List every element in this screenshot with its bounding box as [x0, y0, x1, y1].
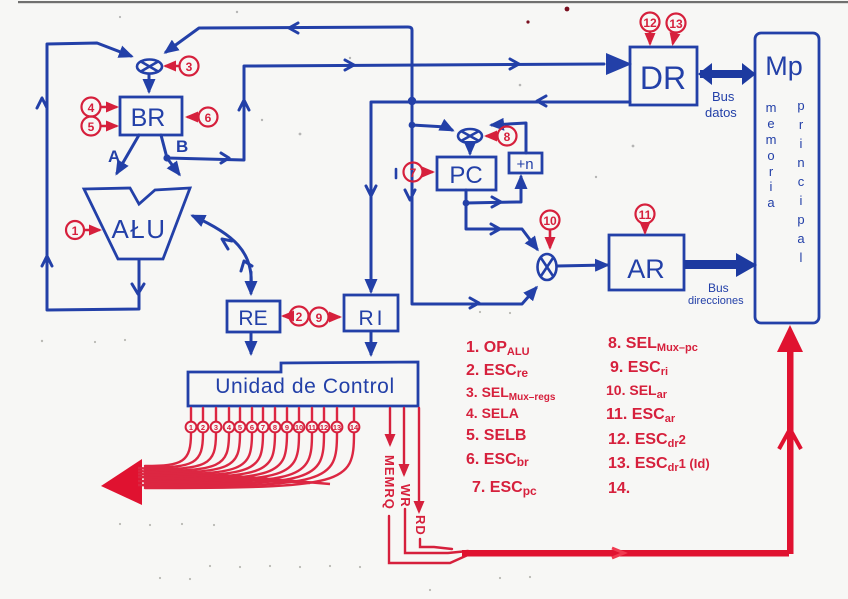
svg-text:11. ESCar: 11. ESCar [606, 406, 676, 425]
svg-text:7: 7 [410, 166, 417, 180]
svg-text:12: 12 [320, 423, 328, 432]
svg-text:r: r [799, 117, 804, 132]
svg-text:9. ESCri: 9. ESCri [610, 359, 668, 378]
svg-text:B: B [176, 137, 188, 156]
svg-text:3: 3 [214, 423, 218, 432]
svg-text:RD: RD [413, 515, 428, 536]
svg-text:5. SELB: 5. SELB [466, 427, 526, 444]
svg-text:Bus: Bus [712, 89, 735, 104]
svg-text:i: i [770, 179, 773, 194]
svg-text:11: 11 [639, 208, 652, 222]
svg-text:7. ESCpc: 7. ESCpc [472, 479, 537, 498]
svg-text:1: 1 [72, 224, 79, 238]
svg-text:3. SELMux–regs: 3. SELMux–regs [466, 384, 556, 403]
svg-text:BR: BR [131, 104, 166, 132]
svg-text:14.: 14. [608, 480, 630, 497]
svg-text:10: 10 [543, 214, 557, 228]
svg-text:4. SELA: 4. SELA [466, 405, 519, 421]
svg-text:8: 8 [504, 130, 511, 144]
svg-text:10. SELar: 10. SELar [606, 382, 668, 401]
svg-text:i: i [800, 193, 803, 208]
svg-text:e: e [767, 116, 774, 131]
svg-text:1: 1 [189, 423, 193, 432]
svg-text:RI: RI [359, 307, 386, 330]
svg-text:direcciones: direcciones [688, 295, 744, 307]
svg-text:7: 7 [261, 423, 265, 432]
svg-text:4: 4 [88, 101, 95, 115]
svg-text:Unidad de Control: Unidad de Control [215, 375, 394, 398]
svg-text:p: p [797, 212, 804, 227]
svg-text:3: 3 [186, 60, 193, 74]
svg-text:2: 2 [201, 423, 205, 432]
svg-text:12. ESCdr2: 12. ESCdr2 [608, 431, 686, 450]
svg-text:p: p [797, 98, 804, 113]
svg-text:m: m [766, 132, 777, 147]
svg-text:AR: AR [627, 254, 665, 284]
svg-text:r: r [769, 164, 774, 179]
svg-text:a: a [797, 231, 805, 246]
svg-text:8. SELMux–pc: 8. SELMux–pc [608, 335, 698, 354]
svg-text:13. ESCdr1 (Id): 13. ESCdr1 (Id) [608, 455, 710, 474]
svg-text:c: c [798, 174, 805, 189]
svg-text:i: i [800, 136, 803, 151]
svg-text:Mp: Mp [765, 51, 803, 81]
svg-text:6. ESCbr: 6. ESCbr [466, 451, 529, 469]
svg-text:1. OPALU: 1. OPALU [466, 339, 530, 358]
svg-text:m: m [766, 100, 777, 115]
svg-text:12: 12 [643, 16, 657, 30]
svg-text:Bus: Bus [708, 281, 729, 295]
svg-text:8: 8 [273, 423, 277, 432]
svg-text:5: 5 [238, 423, 242, 432]
svg-text:5: 5 [88, 120, 95, 134]
svg-text:+n: +n [516, 156, 533, 173]
svg-text:13: 13 [333, 423, 341, 432]
svg-text:DR: DR [640, 60, 686, 96]
svg-text:10: 10 [295, 423, 303, 432]
svg-text:RE: RE [238, 307, 267, 330]
svg-text:6: 6 [205, 111, 212, 125]
svg-text:WR: WR [398, 484, 413, 508]
svg-text:13: 13 [669, 17, 683, 31]
svg-text:2. ESCre: 2. ESCre [466, 362, 528, 380]
svg-text:2: 2 [296, 310, 303, 324]
svg-text:AŁU: AŁU [111, 214, 166, 244]
svg-text:A: A [108, 147, 120, 166]
svg-text:11: 11 [308, 423, 316, 432]
svg-text:14: 14 [350, 423, 359, 432]
svg-text:9: 9 [285, 423, 289, 432]
svg-text:n: n [797, 155, 804, 170]
svg-text:l: l [800, 250, 803, 265]
svg-text:MEMRQ: MEMRQ [382, 455, 397, 510]
svg-text:datos: datos [705, 105, 737, 120]
svg-text:o: o [767, 148, 774, 163]
svg-text:a: a [767, 195, 775, 210]
svg-text:6: 6 [250, 423, 254, 432]
svg-text:9: 9 [316, 311, 323, 325]
svg-text:PC: PC [449, 162, 482, 189]
